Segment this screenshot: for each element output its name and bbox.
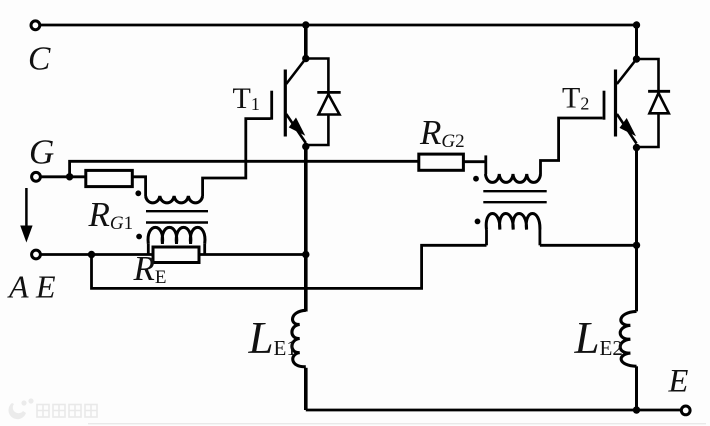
svg-text:A E: A E	[7, 269, 56, 305]
svg-text:E: E	[668, 364, 689, 400]
svg-text:G: G	[29, 133, 54, 172]
svg-text:C: C	[28, 41, 51, 78]
